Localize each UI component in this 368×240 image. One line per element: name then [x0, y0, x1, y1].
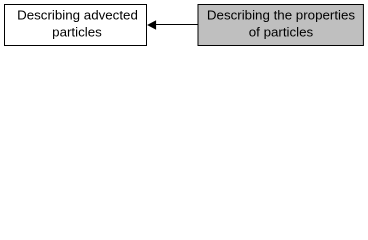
arrowhead pointing at Node2	[147, 20, 156, 30]
node Node2: Describing advected particles	[5, 5, 147, 46]
svg-text:Describing the properties: Describing the properties	[207, 7, 356, 22]
svg-text:Describing advected: Describing advected	[17, 7, 138, 22]
wire: edge line Node1 to Node2	[156, 24, 199, 26]
node Node1: Describing the properties of particles (current, grey)	[198, 5, 363, 46]
svg-text:of particles: of particles	[249, 24, 314, 39]
svg-text:particles: particles	[52, 24, 102, 39]
